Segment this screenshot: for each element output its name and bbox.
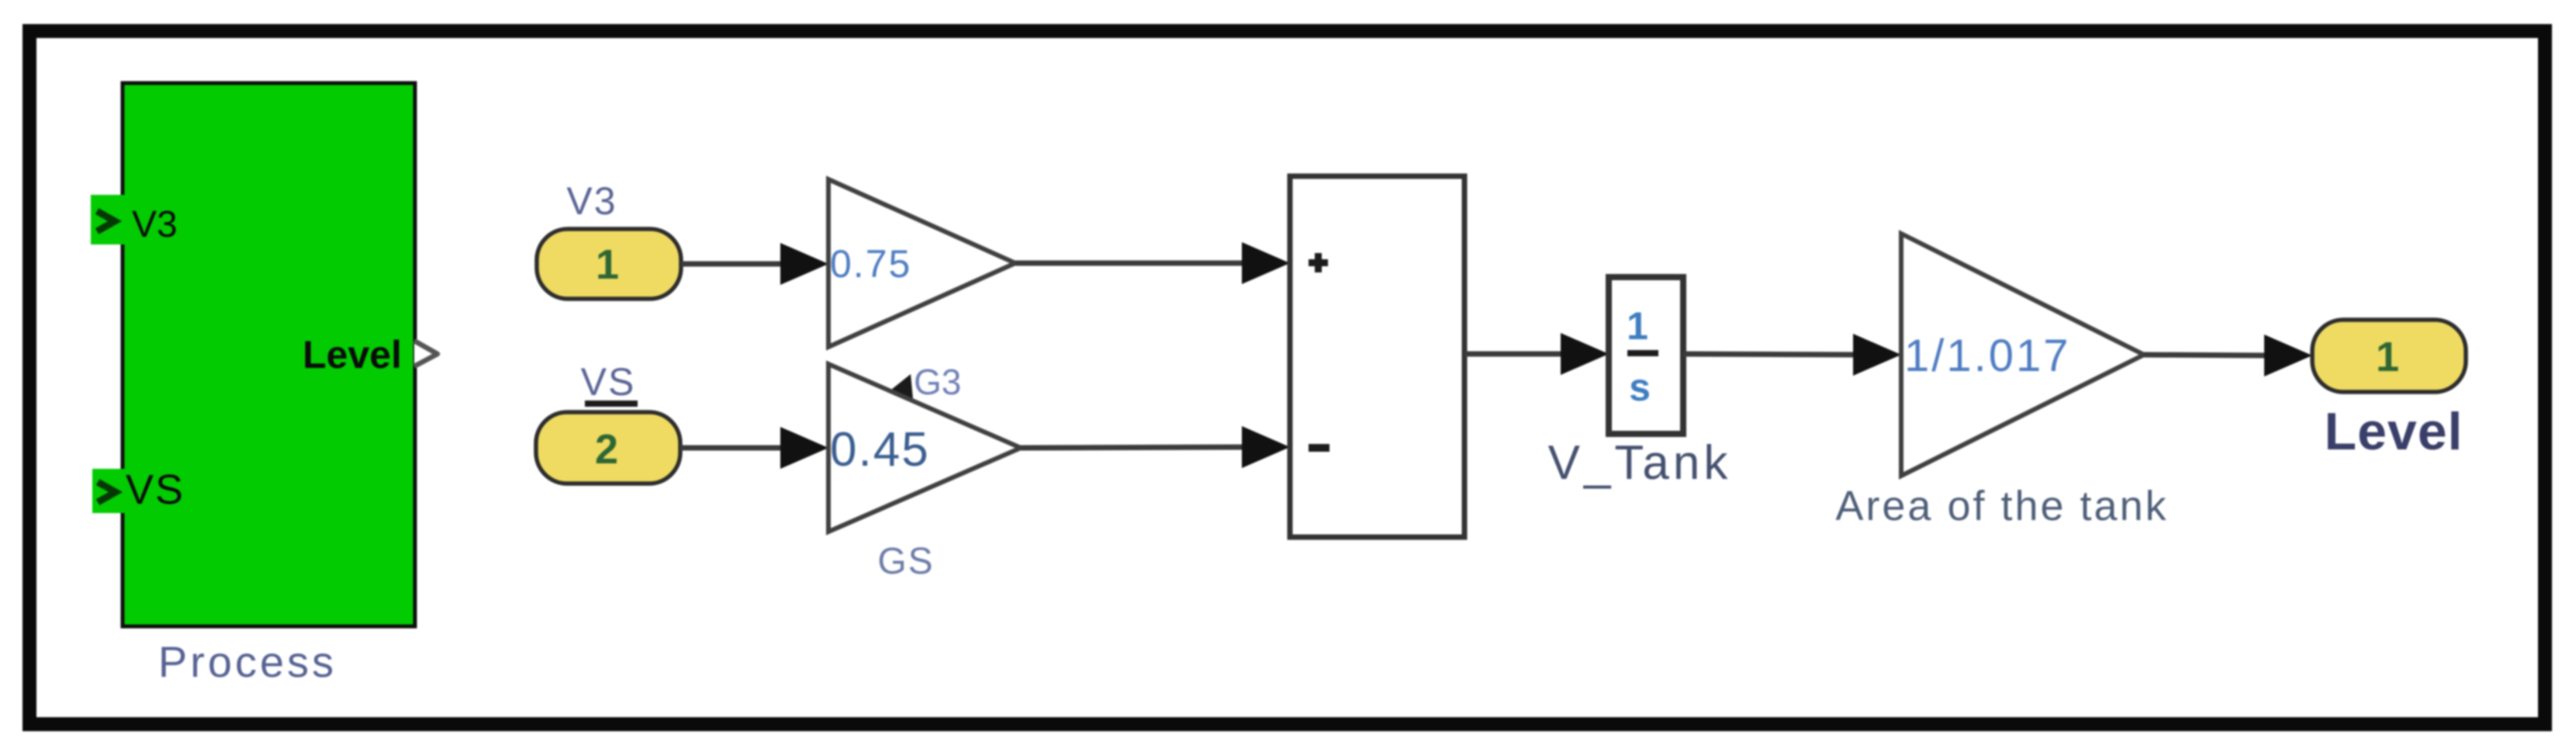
sum block	[1290, 176, 1464, 537]
wire inport2 to gain GS	[680, 446, 785, 451]
gain G3 (0.75)	[828, 179, 1015, 347]
arrowhead into sum -	[1242, 426, 1290, 468]
gain GS (0.45)	[828, 364, 1021, 532]
svg-text:1: 1	[596, 241, 619, 288]
outport 1	[2312, 320, 2466, 392]
svg-text:GS: GS	[877, 541, 934, 582]
wire sum to integrator	[1464, 352, 1565, 357]
svg-text:V_Tank: V_Tank	[1548, 436, 1732, 490]
svg-text:1: 1	[2376, 334, 2399, 380]
input port tag VS on Process	[92, 469, 125, 513]
svg-text:VS: VS	[126, 466, 185, 513]
svg-text:0.45: 0.45	[830, 423, 930, 477]
svg-text:Level: Level	[2325, 402, 2464, 461]
svg-text:s: s	[1629, 366, 1651, 409]
wire gain Area to outport	[2144, 355, 2269, 355]
wire gain G3 to sum +	[1015, 261, 1247, 266]
annotation arrow near G3	[887, 374, 913, 399]
wire integrator to gain Area	[1683, 354, 1858, 355]
inport 2	[536, 412, 680, 484]
gain Area of the tank (1/1.017)	[1901, 234, 2144, 476]
svg-text:Level: Level	[303, 333, 402, 376]
svg-text:0.75: 0.75	[830, 242, 911, 286]
svg-text:VS: VS	[581, 360, 636, 404]
svg-text:Process: Process	[158, 637, 337, 686]
wire inport1 to gain G3	[681, 262, 785, 267]
svg-text:V3: V3	[566, 179, 617, 223]
label VS above inport 2	[581, 360, 638, 407]
output port chevron of Process	[414, 341, 437, 366]
inport 1	[537, 229, 681, 299]
svg-text:V3: V3	[132, 204, 178, 245]
input port tag V3 on Process	[91, 195, 125, 244]
svg-text:1: 1	[1627, 304, 1648, 348]
integrator block 1/s	[1609, 277, 1683, 434]
arrowhead into gain GS	[780, 427, 828, 469]
arrowhead into integrator	[1561, 333, 1609, 375]
wire gain GS to sum -	[1021, 447, 1247, 448]
arrowhead into gain G3	[780, 243, 828, 285]
arrowhead into sum +	[1242, 242, 1290, 284]
arrowhead into outport	[2264, 335, 2312, 376]
svg-text:1/1.017: 1/1.017	[1904, 331, 2071, 381]
svg-text:Area of the tank: Area of the tank	[1835, 483, 2168, 529]
svg-text:2: 2	[595, 426, 618, 473]
svg-text:G3: G3	[914, 362, 961, 402]
arrowhead into gain Area	[1853, 334, 1901, 376]
subsystem block Process	[123, 83, 415, 626]
